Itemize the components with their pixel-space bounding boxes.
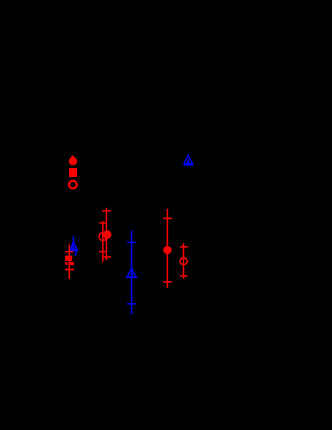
cap top — [99, 222, 106, 223]
wire vertical line — [69, 244, 71, 279]
errorbar E2: red mid-left with square — [65, 244, 74, 279]
marker open triangle — [70, 242, 77, 250]
series P1: red filled-circle cluster top-left — [69, 156, 77, 178]
marker filled circle — [69, 157, 77, 165]
wire vertical line — [167, 209, 169, 288]
cap bottom — [163, 281, 172, 283]
marker filled triangle — [130, 272, 133, 276]
errorbar E4: blue center-bottom with triangle — [127, 231, 137, 315]
wire vertical line — [102, 221, 104, 262]
marker filled circle — [163, 246, 171, 254]
cap bottom — [65, 269, 74, 271]
cap bar — [70, 249, 78, 251]
cap top — [65, 251, 73, 252]
cap top — [127, 242, 136, 244]
marker filled circle overlap redraw — [103, 230, 111, 238]
marker filled triangle — [187, 158, 191, 163]
marker filled triangle — [72, 245, 75, 248]
cap mid left block — [65, 262, 67, 265]
wire vertical line — [183, 243, 185, 278]
marker open circle — [69, 181, 77, 189]
errorbar E5: red right with filled circle — [163, 209, 172, 288]
series T1: blue triangle top-right — [184, 155, 193, 165]
marker filled square — [65, 256, 72, 261]
cap bottom — [103, 256, 111, 258]
errorbar E6: red far-right with open circle — [180, 243, 188, 278]
marker small filled circle (peek) — [71, 156, 74, 159]
triangle base bar — [127, 276, 136, 278]
cap bottom — [99, 251, 106, 252]
marker open triangle — [184, 155, 193, 163]
cap bottom — [127, 303, 136, 305]
cap bottom — [180, 275, 187, 277]
wire vertical line — [131, 231, 133, 315]
errorbar E3b: red center with open circle — [99, 221, 107, 262]
errorbar E1: blue mid-left with triangle — [70, 236, 78, 256]
cap top — [102, 210, 111, 211]
marker filled circle — [103, 230, 111, 238]
stem below cap — [75, 251, 76, 256]
marker open triangle — [127, 269, 137, 278]
cap top — [180, 246, 188, 248]
cap top — [163, 218, 172, 220]
marker open circle — [99, 233, 107, 241]
cap mid right block — [69, 262, 74, 265]
marker filled square — [69, 168, 77, 177]
wire vertical line — [106, 208, 108, 260]
wire vertical line — [73, 236, 75, 251]
errorbar E3a: red center with filled circle — [102, 208, 111, 260]
cap bar — [184, 163, 193, 166]
marker open circle — [180, 258, 187, 265]
